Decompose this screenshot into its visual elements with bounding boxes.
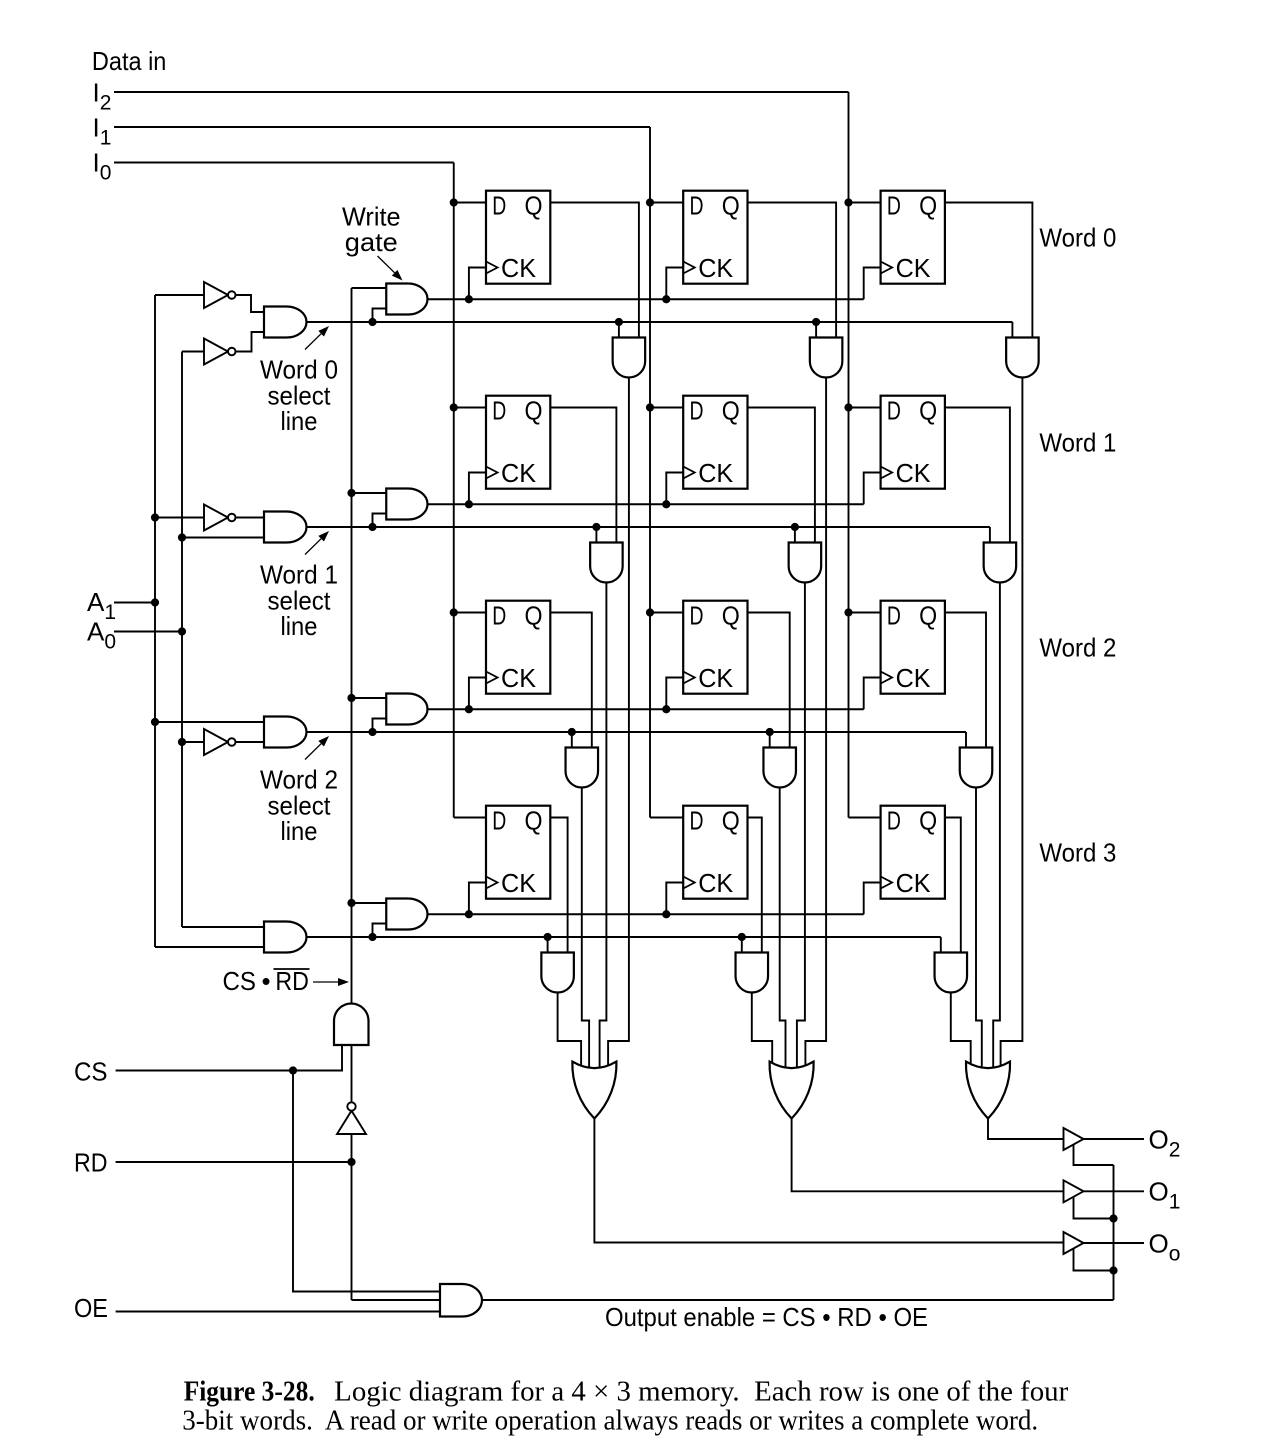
svg-text:D: D bbox=[492, 603, 506, 631]
svg-text:Logic diagram for a 4 × 3 memo: Logic diagram for a 4 × 3 memory. Each r… bbox=[334, 1376, 1069, 1407]
svg-text:I1: I1 bbox=[93, 113, 112, 150]
svg-text:O2: O2 bbox=[1149, 1124, 1181, 1161]
svg-text:CK: CK bbox=[698, 665, 733, 693]
svg-text:gate: gate bbox=[345, 227, 398, 257]
svg-text:line: line bbox=[281, 611, 318, 641]
svg-text:D: D bbox=[887, 398, 901, 426]
svg-text:Q: Q bbox=[525, 808, 543, 836]
svg-text:CK: CK bbox=[501, 255, 536, 283]
svg-text:O1: O1 bbox=[1149, 1177, 1181, 1214]
svg-text:Q: Q bbox=[919, 193, 937, 221]
svg-text:CK: CK bbox=[896, 665, 931, 693]
svg-text:CK: CK bbox=[698, 255, 733, 283]
svg-text:I0: I0 bbox=[93, 148, 112, 185]
svg-text:Word 1: Word 1 bbox=[1039, 428, 1116, 458]
svg-text:Figure 3-28.: Figure 3-28. bbox=[184, 1375, 315, 1407]
svg-text:RD: RD bbox=[275, 966, 309, 996]
svg-text:Q: Q bbox=[919, 603, 937, 631]
svg-text:D: D bbox=[690, 193, 704, 221]
svg-text:3-bit words. A read or write: 3-bit words. A read or write operation a… bbox=[182, 1405, 1038, 1436]
svg-text:D: D bbox=[887, 808, 901, 836]
svg-text:Q: Q bbox=[525, 193, 543, 221]
svg-text:D: D bbox=[887, 603, 901, 631]
svg-text:CK: CK bbox=[501, 870, 536, 898]
svg-text:line: line bbox=[281, 816, 318, 846]
svg-text:Data in: Data in bbox=[92, 46, 166, 76]
svg-text:CK: CK bbox=[501, 460, 536, 488]
svg-text:Q: Q bbox=[525, 603, 543, 631]
svg-text:D: D bbox=[492, 808, 506, 836]
svg-text:CK: CK bbox=[896, 255, 931, 283]
svg-text:•: • bbox=[262, 966, 271, 996]
svg-text:Q: Q bbox=[919, 398, 937, 426]
svg-text:Word 0: Word 0 bbox=[1039, 223, 1116, 253]
svg-text:line: line bbox=[281, 406, 318, 436]
svg-text:D: D bbox=[690, 603, 704, 631]
svg-text:Word 2: Word 2 bbox=[1039, 633, 1116, 663]
svg-text:Q: Q bbox=[722, 193, 740, 221]
svg-text:CK: CK bbox=[896, 460, 931, 488]
svg-text:D: D bbox=[492, 398, 506, 426]
svg-text:RD: RD bbox=[74, 1148, 108, 1178]
svg-text:CS: CS bbox=[74, 1056, 108, 1086]
svg-text:Q: Q bbox=[722, 603, 740, 631]
svg-text:CK: CK bbox=[896, 870, 931, 898]
svg-text:Q: Q bbox=[722, 398, 740, 426]
svg-text:Word 3: Word 3 bbox=[1039, 838, 1116, 868]
svg-text:OE: OE bbox=[74, 1293, 108, 1323]
svg-text:CK: CK bbox=[698, 870, 733, 898]
svg-text:D: D bbox=[690, 808, 704, 836]
svg-text:Q: Q bbox=[525, 398, 543, 426]
svg-text:D: D bbox=[887, 193, 901, 221]
svg-text:CK: CK bbox=[501, 665, 536, 693]
svg-text:Q: Q bbox=[722, 808, 740, 836]
svg-text:D: D bbox=[492, 193, 506, 221]
svg-text:Q: Q bbox=[919, 808, 937, 836]
svg-text:D: D bbox=[690, 398, 704, 426]
svg-text:CK: CK bbox=[698, 460, 733, 488]
svg-text:CS: CS bbox=[223, 966, 257, 996]
svg-text:I2: I2 bbox=[93, 78, 112, 115]
svg-text:Oo: Oo bbox=[1149, 1228, 1181, 1265]
svg-text:Output enable = CS • RD • OE: Output enable = CS • RD • OE bbox=[605, 1302, 928, 1332]
